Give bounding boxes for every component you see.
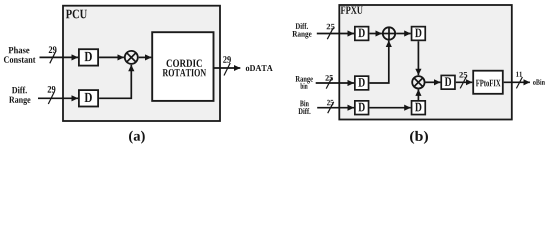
label Phase Constant (4, 47, 36, 63)
PCU block (63, 6, 220, 121)
bus width 11 slash (oBin) (516, 72, 522, 89)
label oBin (533, 79, 545, 85)
wire Diff. Range input (38, 97, 78, 99)
label oDATA (246, 65, 273, 71)
FPtoFIX block (473, 71, 503, 94)
bus width 25 slash (Bin Diff.) (327, 100, 334, 113)
wire FPtoFIX output (504, 81, 530, 83)
register D7 (412, 101, 426, 115)
CORDIC ROTATION block (152, 32, 213, 101)
FPXU label (341, 7, 363, 14)
PCU label (66, 10, 87, 19)
wire D8 to FPtoFIX (456, 81, 473, 83)
register D1 (79, 49, 98, 65)
wire D5 to adder bottom (370, 41, 389, 83)
wire multiplier to D8 (426, 81, 441, 83)
bus width 29 slash (oDATA) (223, 56, 231, 75)
wire D6 to D7 (369, 107, 410, 109)
register D8 (441, 75, 455, 89)
label Diff. Range (b) (292, 23, 311, 39)
bus width 29 slash (Phase Constant) (49, 46, 57, 63)
wire Phase Constant input (40, 56, 79, 58)
wire Diff. Range input (b) (317, 33, 354, 35)
wire D1 to multiplier (99, 56, 124, 58)
label Bin Diff. (298, 100, 310, 114)
wire adder to D4 (396, 33, 411, 35)
FPXU block (339, 5, 512, 120)
wire multiplier to CORDIC (139, 56, 152, 58)
register D3 (355, 27, 369, 41)
adder A1 (383, 27, 395, 39)
bus width 29 slash (Diff. Range) (48, 86, 56, 104)
wire Bin Diff. input (317, 107, 354, 109)
label Diff. Range (9, 87, 30, 105)
wire D2 to multiplier bottom (99, 65, 131, 99)
wire CORDIC output (214, 67, 241, 69)
wire D3 to adder (370, 33, 382, 35)
wire D4 down to multiplier top (417, 41, 419, 75)
register D2 (79, 90, 98, 106)
multiplier M2 (412, 76, 424, 88)
caption (b) (410, 131, 428, 144)
wire Range bin input (316, 82, 354, 84)
bus width 25 slash (D8 out) (459, 72, 467, 88)
caption (a) (129, 131, 145, 144)
register D4 (412, 27, 426, 41)
register D6 (355, 101, 369, 115)
multiplier M1 (125, 51, 138, 64)
wire D7 up to multiplier bottom (417, 89, 419, 100)
bus width 25 slash (Diff. Range b) (327, 24, 335, 39)
label Range bin (296, 76, 313, 89)
bus width 25 slash (Range bin) (325, 75, 332, 89)
register D5 (355, 76, 369, 90)
